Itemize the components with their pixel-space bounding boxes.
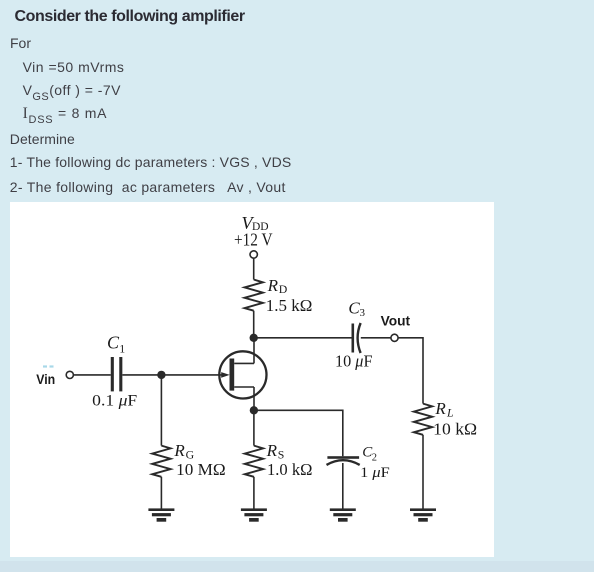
C3 label [348, 299, 365, 320]
transistor Q1 JFET [219, 351, 266, 398]
VDD label [242, 213, 269, 233]
wire Vin to C1 [73, 374, 110, 376]
ground RG [148, 508, 174, 521]
RG label [173, 441, 225, 479]
wire Q1 source down to source node [253, 387, 255, 410]
svg-text:+12 V: +12 V [234, 230, 273, 250]
wire gate node down to RG [160, 375, 162, 446]
wire drain node to C3 [254, 337, 353, 339]
svg-text:0.1 μF: 0.1 μF [92, 393, 137, 410]
bottom strip [0, 561, 594, 572]
svg-text:2: 2 [372, 453, 377, 464]
wire C3 to Vout [361, 337, 391, 339]
wire RL to ground [422, 435, 424, 509]
wire drain node to Q1 drain [253, 338, 255, 364]
svg-text:L: L [446, 406, 454, 420]
node source [250, 406, 258, 414]
resistor RL [414, 404, 432, 435]
ground RL [410, 508, 436, 521]
svg-text:1.5 kΩ: 1.5 kΩ [266, 296, 313, 315]
RD label [266, 276, 313, 315]
C1 label [107, 333, 125, 356]
svg-text:R: R [267, 276, 279, 295]
Vin blue marks [43, 365, 54, 367]
wire C1 to gate [122, 374, 221, 376]
resistor RG [152, 446, 170, 477]
node gate [157, 371, 165, 379]
svg-text:Vout: Vout [381, 314, 411, 329]
node drain [250, 334, 258, 342]
C2 label [362, 444, 377, 463]
svg-text:R: R [173, 441, 185, 460]
wire source node to C2 branch [254, 410, 343, 456]
VDD terminal [250, 251, 257, 258]
svg-text:3: 3 [360, 307, 366, 319]
svg-text:R: R [266, 441, 278, 460]
capacitor C3 [353, 323, 361, 353]
ground C2 [330, 508, 356, 521]
capacitor C2 [327, 456, 360, 465]
svg-text:Vin: Vin [36, 372, 55, 387]
wire Vout to RL corner [398, 338, 423, 404]
wire VDD to RD [253, 258, 255, 279]
ground RS [241, 508, 267, 521]
RL label [433, 399, 477, 439]
resistor RD [245, 280, 263, 311]
capacitor C1 [112, 357, 121, 391]
svg-text:10 μF: 10 μF [335, 352, 373, 371]
svg-text:1: 1 [119, 342, 125, 356]
svg-text:1 μF: 1 μF [360, 465, 390, 481]
RS label [266, 441, 313, 479]
Vin terminal [66, 371, 73, 378]
svg-text:D: D [279, 282, 288, 296]
wire C2 to ground [342, 463, 344, 509]
Vout terminal [391, 334, 398, 341]
svg-text:1.0 kΩ: 1.0 kΩ [267, 460, 312, 479]
svg-text:10 kΩ: 10 kΩ [433, 420, 477, 439]
svg-text:R: R [434, 399, 446, 418]
svg-text:10 MΩ: 10 MΩ [176, 460, 226, 479]
wire RS to ground [253, 477, 255, 509]
wire source node down to RS [253, 410, 255, 445]
resistor RS [245, 446, 263, 477]
wire RG to ground [160, 477, 162, 509]
wire RD to drain node [253, 311, 255, 341]
svg-text:C: C [107, 333, 120, 353]
